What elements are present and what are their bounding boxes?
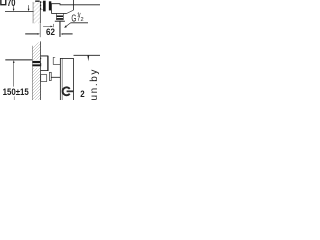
svg-text:2: 2 [81,17,84,23]
svg-text:62: 62 [46,27,55,37]
svg-text:150±15: 150±15 [3,87,29,97]
svg-text:un.by: un.by [89,68,100,100]
svg-text:2: 2 [80,88,84,99]
svg-text:70: 70 [7,0,16,9]
